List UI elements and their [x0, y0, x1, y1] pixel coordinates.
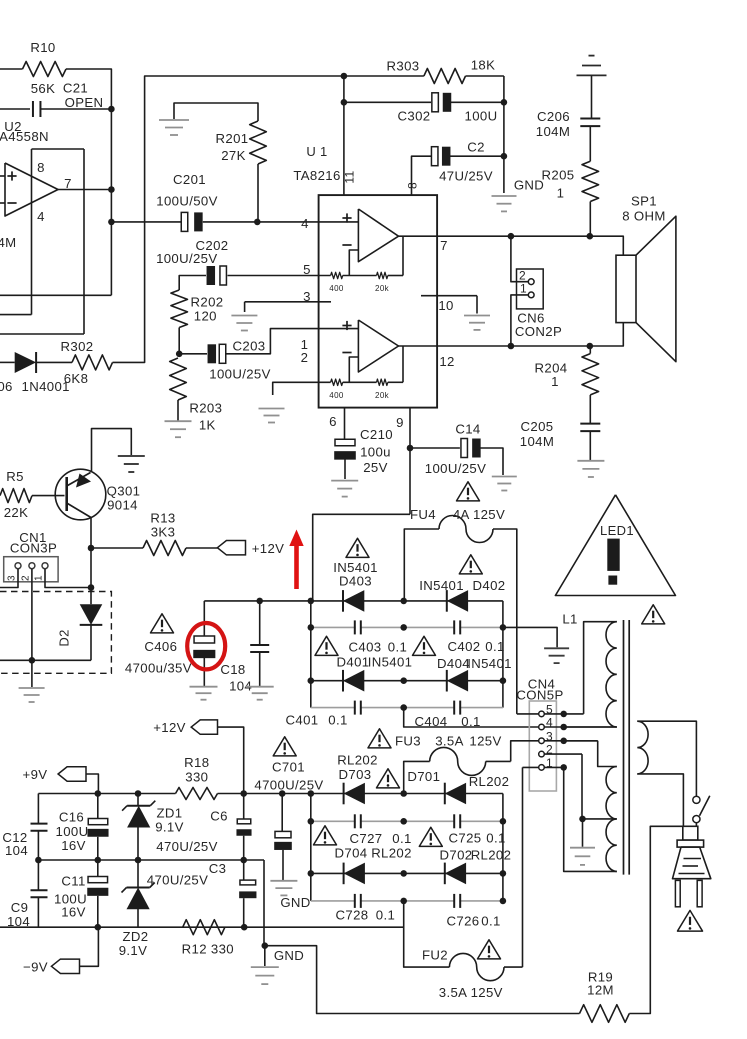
warning triangle FU2	[478, 940, 501, 959]
diode D402	[447, 590, 468, 612]
wire bus A	[0, 294, 111, 296]
svg-text:C725: C725	[449, 831, 482, 846]
resistor R205	[582, 161, 599, 201]
transistor Q301	[55, 469, 106, 520]
svg-text:C201: C201	[173, 172, 206, 187]
node D2/CN1 gnd	[29, 657, 36, 664]
ground L1 spur	[503, 627, 557, 647]
node R13 junction	[88, 545, 95, 552]
red circle annotation	[187, 623, 225, 669]
svg-text:IN5401: IN5401	[467, 656, 512, 671]
svg-text:1K: 1K	[199, 418, 216, 433]
svg-text:7: 7	[440, 238, 448, 253]
U2 box lines	[32, 148, 85, 150]
capacitor row C727/C725	[311, 820, 503, 822]
resistor R203	[170, 358, 187, 400]
+9V tag	[58, 767, 86, 781]
svg-text:100U/25V: 100U/25V	[209, 367, 270, 382]
svg-text:C726: C726	[447, 914, 480, 929]
capacitor C206	[580, 117, 600, 119]
wire pin11 vertical	[343, 76, 345, 195]
diode D701	[445, 783, 466, 805]
node rail2 ZD	[135, 857, 142, 864]
node row2 mid	[400, 624, 407, 631]
svg-text:10: 10	[438, 298, 453, 313]
svg-text:C9: C9	[11, 900, 29, 915]
capacitor C210	[335, 439, 355, 446]
node C701 top	[279, 790, 286, 797]
L1 secondary winding	[637, 721, 696, 796]
svg-text:D703: D703	[339, 767, 372, 782]
resistor R10	[23, 62, 67, 77]
op-amp U1a	[358, 209, 398, 262]
resistor R204	[582, 354, 599, 395]
ground C2 GND	[492, 195, 517, 197]
+12V tag	[191, 720, 217, 734]
svg-text:C16: C16	[59, 810, 84, 825]
svg-text:1: 1	[520, 282, 527, 296]
svg-text:6: 6	[329, 414, 337, 429]
bridge1 right column	[502, 601, 504, 708]
node C201 right	[254, 219, 261, 226]
warning triangle D702	[419, 827, 442, 846]
capacitor C202	[220, 266, 227, 285]
node C302 right	[501, 99, 508, 106]
svg-text:9014: 9014	[107, 498, 138, 513]
svg-text:4: 4	[301, 216, 309, 231]
fuse FU4	[404, 529, 439, 601]
svg-text:9.1V: 9.1V	[155, 820, 184, 835]
svg-text:R18: R18	[184, 755, 209, 770]
capacitor C9	[37, 860, 39, 890]
ground C14	[492, 476, 517, 478]
CN1 pin2 wire	[31, 569, 33, 661]
zener ZD1	[137, 794, 139, 806]
rail -9V	[0, 926, 404, 928]
svg-text:4M: 4M	[0, 235, 17, 250]
resistor 400 (U1a)	[331, 272, 343, 278]
warning triangle D703	[377, 769, 400, 788]
ground C18	[246, 686, 274, 688]
CN4 pin3 wire	[511, 741, 539, 762]
svg-text:D403: D403	[339, 574, 372, 589]
svg-text:47U/25V: 47U/25V	[439, 169, 493, 184]
CN4 pin4 wire right	[544, 726, 617, 728]
wire +12V to rail	[218, 727, 244, 793]
svg-text:D404: D404	[437, 656, 470, 671]
capacitor C203	[219, 344, 226, 363]
ground center tap	[582, 819, 584, 847]
svg-text:9.1V: 9.1V	[119, 943, 148, 958]
svg-text:8 OHM: 8 OHM	[622, 209, 666, 224]
svg-text:27K: 27K	[221, 148, 246, 163]
svg-text:C701: C701	[272, 760, 305, 775]
svg-text:4A 125V: 4A 125V	[453, 507, 505, 522]
svg-text:R302: R302	[61, 339, 94, 354]
svg-text:8: 8	[37, 160, 45, 175]
node rail2 C12	[35, 857, 42, 864]
node b2 row3 mid	[400, 870, 407, 877]
svg-text:100u: 100u	[360, 445, 391, 460]
svg-text:C3: C3	[209, 861, 227, 876]
wire pin2 to tap	[581, 754, 583, 819]
svg-text:D702: D702	[440, 848, 473, 863]
capacitor C12	[37, 794, 39, 824]
diode D403	[343, 590, 364, 612]
warning triangle near L1	[642, 605, 665, 624]
svg-text:RL202: RL202	[471, 848, 512, 863]
svg-text:5: 5	[303, 262, 311, 277]
svg-text:R303: R303	[387, 59, 420, 74]
node C201 left	[108, 219, 115, 226]
node pin3	[560, 738, 567, 745]
node pin1	[560, 764, 567, 771]
connector CN6 box	[517, 269, 544, 309]
node b2 row3 right	[500, 870, 507, 877]
diode row 2 D401/D404	[311, 680, 503, 682]
wire rail2 to GND	[263, 860, 265, 946]
wire emitter	[90, 518, 92, 588]
warning triangle C701	[273, 737, 296, 756]
warning triangle D403	[346, 538, 369, 557]
node row3 right	[500, 677, 507, 684]
svg-text:0.1: 0.1	[328, 713, 347, 728]
L1 core	[623, 620, 625, 875]
warning triangle FU4	[457, 482, 480, 501]
svg-text:C728: C728	[336, 908, 369, 923]
wire input to R10	[0, 68, 23, 70]
ground C701	[270, 880, 297, 882]
svg-text:R12 330: R12 330	[182, 942, 234, 957]
capacitor row C728/C726	[311, 900, 503, 902]
node row4 mid	[400, 704, 407, 711]
node center tap	[579, 816, 586, 823]
svg-text:R13: R13	[150, 511, 175, 526]
svg-text:3: 3	[7, 575, 18, 581]
svg-text:2: 2	[301, 350, 309, 365]
node b2 row1 mid	[400, 790, 407, 797]
node rail +9V	[95, 790, 102, 797]
svg-text:22K: 22K	[4, 505, 29, 520]
node CN6 pin1 tap	[508, 343, 515, 350]
svg-text:RL202: RL202	[469, 774, 510, 789]
svg-text:104M: 104M	[536, 124, 570, 139]
capacitor C2	[412, 156, 432, 195]
plug prong left	[675, 880, 680, 906]
ground pin10	[464, 315, 490, 317]
svg-text:120: 120	[194, 309, 217, 324]
svg-text:2: 2	[519, 269, 526, 283]
svg-text:LED1: LED1	[600, 523, 634, 538]
resistor R302	[72, 355, 113, 370]
svg-text:6K8: 6K8	[64, 371, 89, 386]
+12V tag mid	[217, 541, 245, 555]
svg-text:ZD2: ZD2	[123, 929, 149, 944]
op-amp U1b feedback	[349, 357, 358, 382]
bridge1 left column	[310, 601, 312, 708]
capacitor C3	[243, 860, 245, 880]
svg-text:104: 104	[5, 843, 28, 858]
L1 primary lower winding	[564, 740, 598, 742]
svg-text:C406: C406	[144, 639, 177, 654]
diode 1N4001	[0, 361, 15, 363]
bridge2 right column	[502, 794, 504, 901]
wire pin12 to speaker	[437, 323, 623, 346]
ground collector	[118, 455, 145, 457]
capacitor C11	[97, 860, 99, 877]
ground feedback2	[259, 408, 285, 410]
ground C205	[577, 460, 604, 462]
fuse FU3	[404, 761, 430, 794]
warning triangle D704	[314, 826, 337, 845]
svg-text:20k: 20k	[375, 284, 390, 293]
svg-text:L1: L1	[562, 611, 577, 626]
-9V tag	[51, 959, 79, 973]
wire pin7 to speaker	[437, 236, 623, 255]
wire R19 to plug	[629, 826, 683, 1013]
CN1 pin1 wire	[45, 569, 91, 588]
resistor 20k (U1b)	[377, 379, 388, 385]
svg-text:TA8216: TA8216	[293, 168, 340, 183]
CN4 pin2 wire	[544, 753, 582, 755]
warning triangle plug	[678, 910, 703, 931]
CN4 pin 1 circle	[539, 765, 545, 771]
svg-text:0.1: 0.1	[392, 831, 411, 846]
node row1 left	[308, 598, 315, 605]
ground pin3	[231, 315, 257, 317]
CN4 pin 2 circle	[539, 751, 545, 757]
wire bus B	[0, 314, 32, 316]
resistor R12	[183, 920, 225, 935]
svg-text:GND: GND	[280, 895, 310, 910]
CN6 pin 2 circle	[528, 279, 534, 285]
svg-text:18K: 18K	[471, 58, 496, 73]
diode D401	[343, 670, 364, 692]
svg-text:RL202: RL202	[371, 846, 412, 861]
node C302 left	[341, 99, 348, 106]
svg-text:12: 12	[439, 354, 454, 369]
svg-text:330: 330	[185, 770, 208, 785]
svg-text:400: 400	[329, 284, 344, 293]
svg-text:R5: R5	[6, 469, 24, 484]
svg-text:16V: 16V	[61, 838, 86, 853]
wire pin1 to winding bottom	[564, 767, 617, 871]
resistor R202	[171, 290, 188, 328]
svg-text:C21: C21	[63, 81, 88, 96]
resistor R19	[580, 1005, 630, 1023]
svg-text:06: 06	[0, 379, 13, 394]
svg-text:100U/50V: 100U/50V	[156, 194, 217, 209]
svg-text:104M: 104M	[520, 434, 554, 449]
resistor 400 (U1b)	[331, 379, 343, 385]
L1 primary upper winding	[584, 622, 617, 714]
capacitor C302	[344, 101, 431, 103]
node pin4	[560, 724, 567, 731]
rail +9V	[38, 793, 175, 795]
wire R10 to node	[66, 69, 111, 109]
svg-text:SP1: SP1	[631, 194, 657, 209]
capacitor row C403/C402	[311, 626, 503, 628]
node R202/R203/C203	[176, 351, 183, 358]
CN4 pin 3 circle	[539, 738, 545, 744]
rail segment	[218, 793, 244, 795]
node row2 left	[308, 624, 315, 631]
svg-text:C18: C18	[220, 662, 245, 677]
svg-text:OPEN: OPEN	[65, 95, 104, 110]
pin 6 wire	[344, 408, 346, 440]
svg-text:R202: R202	[191, 295, 224, 310]
node CN6 pin2 tap	[508, 233, 515, 240]
svg-text:3.5A 125V: 3.5A 125V	[439, 985, 503, 1000]
svg-text:2: 2	[21, 575, 32, 581]
resistor R303	[344, 75, 424, 77]
wire pin9 to bridge	[313, 514, 410, 601]
node R205 bottom	[587, 233, 594, 240]
node ZD1 top	[135, 790, 142, 797]
wire U1b output	[399, 345, 438, 347]
svg-text:U 1: U 1	[306, 144, 327, 159]
svg-text:A4558N: A4558N	[0, 129, 49, 144]
wire R303 right down	[503, 76, 505, 193]
svg-text:16V: 16V	[61, 905, 86, 920]
svg-text:+12V: +12V	[252, 541, 285, 556]
svg-text:C302: C302	[398, 109, 431, 124]
CN6 pin 1 wire	[511, 295, 528, 346]
svg-text:Q301: Q301	[107, 484, 141, 499]
svg-text:4700u/35V: 4700u/35V	[125, 661, 192, 676]
diode D703	[344, 783, 365, 805]
CN6 pin 1 circle	[528, 292, 534, 298]
warning triangle D402	[459, 555, 482, 574]
node row3 left	[308, 677, 315, 684]
dashed box	[0, 592, 111, 674]
wire U2 output	[58, 189, 111, 191]
svg-text:C6: C6	[210, 809, 228, 824]
ground R203	[165, 420, 192, 422]
svg-text:R205: R205	[542, 168, 575, 183]
svg-text:470U/25V: 470U/25V	[156, 839, 217, 854]
wire feedback2 to ground	[273, 382, 331, 395]
diode row D704/D702	[311, 872, 503, 874]
svg-text:R201: R201	[216, 131, 249, 146]
ground CN1	[31, 660, 33, 687]
capacitor C16	[97, 794, 99, 819]
svg-text:C11: C11	[61, 874, 85, 889]
svg-text:C206: C206	[537, 109, 570, 124]
svg-text:D704: D704	[335, 846, 368, 861]
svg-text:D401: D401	[337, 655, 370, 670]
warning triangle C406	[151, 614, 174, 633]
svg-text:C403: C403	[349, 640, 382, 655]
svg-text:R203: R203	[189, 401, 222, 416]
node emitter/pin1	[88, 584, 95, 591]
svg-text:9: 9	[396, 415, 404, 430]
capacitor C205	[580, 423, 600, 425]
svg-text:4: 4	[37, 209, 45, 224]
svg-text:3K3: 3K3	[151, 525, 176, 540]
svg-text:4700U/25V: 4700U/25V	[254, 778, 323, 793]
CN4 pin 5 circle	[539, 711, 545, 717]
svg-text:−9V: −9V	[23, 960, 48, 975]
wire R302 to feedback	[113, 76, 344, 362]
svg-text:470U/25V: 470U/25V	[147, 873, 208, 888]
wire +V row1	[204, 600, 503, 602]
node rail2 C6	[240, 857, 247, 864]
CN4 pin1 wire	[522, 767, 524, 967]
node U2 output	[108, 186, 115, 193]
inverted ground top right	[577, 74, 607, 76]
svg-text:CON5P: CON5P	[516, 688, 563, 703]
node R204 top	[587, 343, 594, 350]
svg-text:D2: D2	[57, 629, 72, 646]
resistor R5	[0, 489, 32, 503]
svg-text:D701: D701	[407, 769, 440, 784]
svg-text:R10: R10	[30, 40, 55, 55]
red arrow annotation	[294, 544, 299, 589]
pin 9 wire	[409, 408, 411, 515]
resistor R13	[91, 547, 143, 549]
node b2 row2 mid	[400, 818, 407, 825]
CN4 pin5 wire	[517, 713, 539, 715]
node +12V rail	[240, 790, 247, 797]
bridge2 left column	[310, 794, 312, 901]
node rail3 C3	[241, 924, 248, 931]
svg-text:ZD1: ZD1	[157, 806, 183, 821]
capacitor C201	[111, 221, 181, 223]
node b2 row1 left	[308, 790, 315, 797]
op-amp U2	[5, 163, 58, 216]
svg-text:C210: C210	[360, 427, 393, 442]
wire -9V to rail	[80, 927, 99, 966]
svg-text:FU3: FU3	[395, 734, 421, 749]
svg-text:3.5A: 3.5A	[435, 734, 464, 749]
svg-text:GND: GND	[514, 178, 544, 193]
capacitor row C401/C404	[311, 707, 503, 709]
svg-text:1N4001: 1N4001	[22, 379, 70, 394]
node pin11 top	[341, 73, 348, 80]
node b2 row3 left	[308, 870, 315, 877]
svg-text:0.1: 0.1	[481, 914, 500, 929]
svg-text:C402: C402	[448, 639, 481, 654]
svg-text:125V: 125V	[469, 734, 501, 749]
ground mid	[264, 946, 266, 966]
switch S1	[693, 796, 700, 803]
node row1 mid	[400, 598, 407, 605]
svg-text:1: 1	[557, 186, 565, 201]
zener ZD2	[137, 860, 139, 888]
node b2 row4 right	[500, 898, 507, 905]
LED1 triangle	[555, 495, 675, 596]
IC U1 TA8216 box	[319, 195, 438, 408]
node C2 right	[501, 153, 508, 160]
svg-text:RL202: RL202	[337, 753, 378, 768]
bridge2 row1	[311, 793, 503, 795]
svg-text:100U: 100U	[465, 109, 498, 124]
diode D2	[90, 588, 92, 605]
wire gnd to C206	[591, 75, 593, 118]
svg-text:0.1: 0.1	[376, 908, 395, 923]
svg-text:CON3P: CON3P	[10, 541, 57, 556]
op-amp U1b	[358, 320, 398, 372]
svg-text:+9V: +9V	[23, 767, 48, 782]
wire bus C	[0, 333, 84, 335]
svg-text:FU4: FU4	[410, 507, 436, 522]
diode D702	[445, 863, 466, 885]
CN4 pin 4 circle	[539, 724, 545, 730]
diode D704	[344, 863, 365, 885]
node GND mid	[262, 942, 269, 949]
svg-text:12M: 12M	[587, 983, 614, 998]
